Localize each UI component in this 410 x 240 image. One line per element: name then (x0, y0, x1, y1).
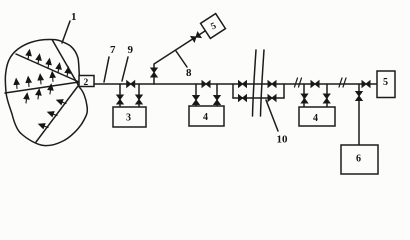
valve branch box4b right (324, 94, 330, 103)
valve branch box3 right (136, 95, 142, 104)
valve lower-left of seal (239, 95, 247, 101)
svg-text:5: 5 (383, 77, 388, 88)
valve on main pipe x=130 (127, 81, 135, 87)
box 5 top (rotated) (201, 14, 226, 39)
valve on main pipe x=315 (311, 81, 319, 87)
goaf/fan area outline (item 1) (5, 39, 87, 145)
valve on main pipe x=206 (202, 81, 210, 87)
sector divider D1 (16, 54, 79, 82)
valve branch box4a left (193, 96, 199, 105)
box 3 (113, 107, 146, 127)
svg-text:2: 2 (84, 78, 89, 88)
label 1 pointer (62, 21, 70, 43)
svg-text:7: 7 (110, 44, 116, 56)
bypass right connector (283, 84, 285, 98)
box 4a (189, 106, 224, 126)
valve upper-left of seal (239, 81, 247, 87)
branch down to box4b right (326, 84, 328, 107)
box 5 right (377, 71, 395, 98)
riser to surface (up branch) (154, 31, 205, 84)
svg-text:4: 4 (313, 113, 318, 124)
pipe break symbol 1 (295, 78, 302, 87)
sector S2 arrows (14, 72, 56, 89)
branch down to box4a right (216, 84, 218, 106)
valve on branch to box6 (356, 92, 362, 101)
branch down to box3 left (119, 84, 121, 107)
svg-text:10: 10 (277, 134, 289, 146)
branch down to box3 right (138, 84, 140, 107)
valve on diagonal pipe (191, 32, 201, 42)
label 9 pointer (122, 57, 128, 81)
bypass lower line (233, 97, 284, 99)
svg-text:9: 9 (128, 44, 134, 56)
bypass loop left connector (232, 84, 234, 98)
valve branch box3 left (117, 95, 123, 104)
svg-text:4: 4 (203, 112, 208, 123)
label 7 pointer (104, 57, 109, 82)
label 1 (71, 11, 77, 23)
branch down to box4b left (303, 84, 305, 107)
valve lower-right of seal (268, 95, 276, 101)
seal wall line left (item 10) (253, 50, 257, 116)
sector S4 arrows (up-left) (38, 98, 67, 130)
sector divider D3 (36, 86, 78, 142)
sector divider D2 (5, 82, 79, 93)
main pipe (94, 83, 377, 85)
valve branch box4b left (301, 94, 307, 103)
sector S3 arrows (24, 84, 54, 103)
box 2 (pump station) (79, 76, 94, 87)
branch down to box6 (358, 84, 360, 145)
svg-text:1: 1 (71, 11, 77, 23)
valve on main pipe x=366 (362, 81, 370, 87)
pipe break symbol 2 (339, 78, 346, 87)
valve branch box4a right (214, 96, 220, 105)
label 10 pointer (266, 100, 278, 131)
box 6 (341, 145, 378, 174)
svg-text:3: 3 (126, 113, 131, 124)
seal wall line right (item 10) (261, 50, 265, 116)
sector S1 arrows (26, 50, 71, 78)
svg-text:6: 6 (356, 154, 361, 165)
valve on riser (151, 68, 157, 77)
label 8 pointer (176, 51, 187, 67)
box 4b (299, 107, 335, 126)
valve upper-right of seal (268, 81, 276, 87)
branch down to box4a left (195, 84, 197, 106)
svg-text:8: 8 (186, 67, 192, 79)
